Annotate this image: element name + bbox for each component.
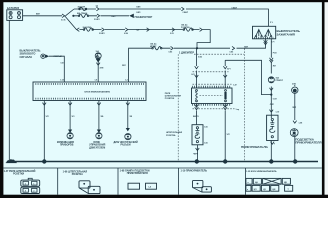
svg-text:УПРАВЛЕНИЯ: УПРАВЛЕНИЯ	[89, 144, 105, 147]
connector line3 e	[200, 28, 203, 32]
svg-text:1-98: 1-98	[299, 123, 303, 125]
svg-text:ГЕНЕРАТОР: ГЕНЕРАТОР	[135, 15, 153, 19]
cigarette lighter box	[267, 115, 278, 140]
svg-text:21W: 21W	[292, 84, 296, 86]
frame right line	[322, 0, 325, 198]
lamp socket circle	[290, 129, 298, 137]
wire bulb down	[294, 93, 296, 120]
connector pair relay left wire	[195, 66, 199, 77]
connector below ignition	[264, 40, 268, 45]
connector right column b	[270, 88, 274, 91]
svg-text:80А ГЛАВН: 80А ГЛАВН	[77, 12, 88, 15]
junction dot lighter/bus	[269, 159, 273, 163]
wire diagonal up to fuse row 1	[66, 9, 75, 16]
connector dashed row R3	[193, 108, 235, 110]
relay contact	[225, 90, 227, 92]
fusible link F3	[84, 28, 93, 31]
fuse CIG POWER SOCKET	[184, 28, 193, 31]
relay internal dashed row	[200, 95, 224, 97]
frame left band	[0, 0, 3, 198]
svg-text:0.5С: 0.5С	[61, 62, 66, 64]
connector pair relay right wire	[223, 66, 227, 77]
connector line3 b	[125, 28, 128, 32]
svg-text:2 БЕЛ: 2 БЕЛ	[99, 33, 105, 35]
svg-text:ДИАГНОСТИЧЕСКИЙ: ДИАГНОСТИЧЕСКИЙ	[114, 141, 139, 144]
connector a on battery feed	[62, 14, 65, 18]
svg-text:РАЗЪЕМ: РАЗЪЕМ	[121, 144, 131, 147]
connector right column a	[270, 58, 274, 63]
legend top border	[3, 167, 322, 169]
svg-text:ЧЕРН: ЧЕРН	[193, 154, 199, 156]
svg-text:1: 1	[33, 184, 34, 186]
connector dashed row R1	[193, 71, 229, 73]
svg-text:30А БТН2: 30А БТН2	[83, 26, 92, 29]
svg-text:2.25: 2.25	[170, 33, 174, 35]
connector lighter top	[270, 110, 274, 113]
svg-text:ЦМ: ЦМ	[272, 189, 275, 191]
battery G1	[7, 10, 23, 21]
svg-text:1-66: 1-66	[204, 126, 208, 128]
instrument cluster component	[67, 133, 73, 139]
svg-text:1-2: 1-2	[125, 80, 128, 82]
wire line4 y48.2	[129, 43, 266, 82]
ECU component	[96, 133, 102, 139]
frame bottom band	[0, 195, 328, 198]
junction dot lamp/bus	[293, 159, 297, 163]
svg-text:0.5Б: 0.5Б	[124, 33, 129, 35]
svg-text:ПРИКУРИВАТЕЛЯ: ПРИКУРИВАТЕЛЯ	[127, 172, 148, 175]
svg-text:ЗУМ: ЗУМ	[100, 67, 104, 69]
svg-text:РОЗЕТКИ: РОЗЕТКИ	[13, 173, 24, 176]
ignition right pin wire down column	[270, 39, 272, 118]
junction dot right column	[270, 94, 272, 96]
svg-text:БЛОК ИММОБИЛАЙЗЕРА: БЛОК ИММОБИЛАЙЗЕРА	[85, 91, 111, 94]
immobilizer bottom wires	[44, 101, 128, 161]
svg-text:ПРИКУР: ПРИКУР	[276, 80, 284, 82]
connector line4 b	[232, 46, 235, 50]
svg-text:РОЗЕТКА: РОЗЕТКА	[181, 26, 190, 29]
svg-text:1-47: 1-47	[233, 84, 237, 87]
battery ground wire	[8, 20, 10, 160]
connector lighter bottom	[271, 142, 275, 145]
connector dashed row R2	[193, 83, 232, 85]
connector on top line	[96, 7, 99, 11]
wire horn to immobilizer	[49, 56, 65, 82]
svg-text:1 ДЖЕМПЕР: 1 ДЖЕМПЕР	[179, 51, 194, 54]
connector bulb column	[293, 121, 297, 124]
svg-text:ПРИБОРОВ: ПРИБОРОВ	[60, 145, 74, 147]
wire lighter to ground bus	[270, 141, 272, 162]
legend5 connector diagram	[246, 178, 293, 191]
svg-text:МЕТЕР: МЕТЕР	[150, 46, 157, 48]
wire top line y9.8	[74, 9, 268, 26]
relay bottom wires	[197, 104, 226, 162]
relay edge tick rows	[192, 86, 232, 88]
connector left line3	[77, 28, 80, 32]
wire diagonal down to line3	[65, 16, 77, 30]
ignition switch box	[253, 26, 276, 39]
wire socket to bus	[196, 145, 198, 162]
connector line3 a	[102, 28, 105, 32]
svg-text:ПРИКУРИВАТЕЛЯ: ПРИКУРИВАТЕЛЯ	[295, 141, 321, 145]
ground bus	[9, 161, 318, 163]
connector line3 c	[147, 28, 150, 32]
legend3 lamp diagram	[128, 183, 157, 189]
legend2 socket diagram	[79, 181, 100, 194]
connector pair below relay right	[223, 105, 227, 110]
svg-text:3: 3	[25, 184, 26, 186]
diagnostic connector component	[125, 134, 131, 140]
svg-text:5 БЕЛ: 5 БЕЛ	[232, 7, 238, 9]
ignition bottom left pin wire	[265, 39, 267, 44]
svg-text:ШТЕПСЕЛЬНОЙ: ШТЕПСЕЛЬНОЙ	[165, 95, 182, 98]
svg-text:КОМБИНАЦИЯ: КОМБИНАЦИЯ	[57, 141, 74, 144]
svg-text:БЛОК: БЛОК	[94, 142, 101, 144]
svg-text:0.85: 0.85	[230, 51, 234, 53]
junction dot immo wire/bus	[42, 159, 46, 163]
svg-text:5 БЕЛ: 5 БЕЛ	[94, 19, 100, 21]
immobilizer box	[33, 82, 146, 101]
legend divider 4	[245, 168, 247, 195]
connector mid top line	[181, 7, 184, 11]
jumper dashed top edge	[194, 53, 244, 55]
svg-text:РОЗЕТКИ: РОЗЕТКИ	[165, 98, 175, 100]
junction dot relay right/bus	[223, 159, 227, 163]
legend divider 1	[57, 168, 59, 195]
svg-text:СИГНАЛА: СИГНАЛА	[20, 55, 33, 59]
connector mid line	[97, 14, 100, 18]
relay box	[192, 87, 233, 105]
svg-text:РОЗЕТКА: РОЗЕТКА	[166, 134, 176, 137]
svg-text:1-19: 1-19	[276, 111, 280, 113]
svg-text:2 БЕЛ: 2 БЕЛ	[183, 12, 189, 14]
svg-text:0.5 Б: 0.5 Б	[61, 19, 66, 21]
svg-text:30А БТН: 30А БТН	[78, 5, 86, 8]
wire middle line y15.8 to generator	[73, 15, 129, 17]
legend1 relay pin diagram	[21, 178, 40, 193]
relay feed wire left	[196, 48, 198, 88]
wire buzzer to immobilizer	[97, 59, 99, 82]
connector below socket	[196, 148, 200, 151]
svg-text:0.85: 0.85	[169, 51, 173, 53]
fusible link F2	[79, 14, 88, 17]
junction dot line4/relay	[196, 47, 198, 49]
generator arrow	[129, 14, 134, 18]
svg-text:ЛИЛ: ЛИЛ	[270, 104, 275, 106]
svg-text:ПРИКУРИВАТЕЛЬ: ПРИКУРИВАТЕЛЬ	[241, 145, 269, 149]
svg-text:БАТАРЕЯ: БАТАРЕЯ	[7, 6, 19, 10]
svg-text:ДВИГАТЕЛЕМ: ДВИГАТЕЛЕМ	[89, 146, 105, 149]
fuse CIG METER	[153, 47, 162, 50]
legend divider 3	[178, 168, 180, 195]
connectors above components	[68, 128, 130, 133]
power socket box	[192, 125, 203, 145]
legend4 lighter diagram	[193, 180, 212, 192]
svg-text:2: 2	[33, 191, 34, 193]
svg-text:ШТЕПСЕЛЬНАЯ: ШТЕПСЕЛЬНАЯ	[166, 131, 183, 134]
ground symbol	[6, 159, 17, 163]
horn switch symbol	[41, 54, 49, 58]
jumper dashed right edge	[244, 49, 246, 162]
connectors below box	[43, 103, 130, 106]
junction dot socket/bus	[195, 159, 199, 163]
ignition switch contacts	[256, 30, 262, 37]
relay coil	[196, 90, 198, 92]
jumper dashed left edge	[177, 54, 179, 161]
svg-text:РОЗЕТКА: РОЗЕТКА	[72, 173, 83, 176]
connector line3 d	[172, 28, 175, 32]
wire line3 y29.6	[80, 30, 211, 49]
svg-text:1-8: 1-8	[95, 80, 98, 82]
ignition pin row	[254, 37, 274, 39]
svg-text:1-35 БЛОК ИММОБИЛАЙЗЕРА: 1-35 БЛОК ИММОБИЛАЙЗЕРА	[246, 170, 277, 173]
connector buzzer wire	[96, 63, 100, 66]
svg-text:1-19 ПРИКУРИВАТЕЛЬ: 1-19 ПРИКУРИВАТЕЛЬ	[181, 170, 208, 173]
svg-text:1-66: 1-66	[204, 142, 208, 144]
wire battery to node	[23, 15, 62, 17]
svg-text:ЗАЖИГАНИЯ: ЗАЖИГАНИЯ	[277, 32, 295, 36]
connector pair below relay left	[195, 105, 199, 110]
svg-text:ЛСЕРЫЙ: ЛСЕРЫЙ	[54, 55, 63, 58]
frame top band	[0, 0, 328, 2]
wire lamp to bus	[294, 137, 296, 162]
wire relay feed loop	[225, 60, 271, 94]
bulb lamp	[292, 85, 298, 94]
legend divider 2	[117, 168, 119, 195]
connector line4 a	[171, 46, 174, 50]
circuit breaker 15A	[268, 77, 274, 83]
svg-text:БЕЛ/Ч: БЕЛ/Ч	[193, 116, 199, 118]
svg-text:0.5Б: 0.5Б	[198, 56, 203, 58]
buzzer component	[95, 53, 101, 63]
fusible link F1	[80, 7, 86, 10]
node junction dot	[72, 15, 74, 17]
relay feed wire right	[224, 60, 226, 88]
